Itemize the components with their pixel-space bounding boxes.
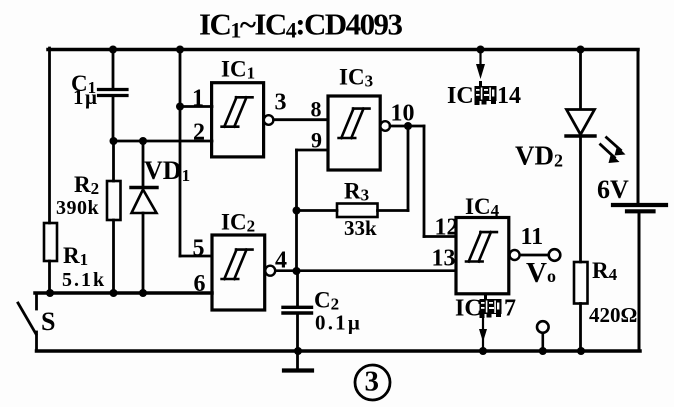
svg-text:1: 1 [192,86,204,112]
svg-text:3: 3 [275,90,287,116]
svg-text:420Ω: 420Ω [589,303,637,327]
svg-text:IC: IC [447,83,474,109]
svg-text:5.1k: 5.1k [62,269,106,291]
svg-text:14: 14 [497,83,521,109]
svg-text:2: 2 [193,120,205,146]
svg-text:6: 6 [194,271,206,297]
svg-text:7: 7 [504,296,516,322]
svg-text:6V: 6V [597,175,629,204]
svg-text:11: 11 [521,224,544,250]
svg-text:33k: 33k [344,216,377,240]
svg-text:IC1~IC4:CD4093: IC1~IC4:CD4093 [199,7,402,43]
svg-text:10: 10 [391,101,415,127]
svg-text:5: 5 [193,236,205,262]
svg-text:1μ: 1μ [73,85,98,109]
svg-text:390k: 390k [56,197,100,219]
svg-text:0.1μ: 0.1μ [315,311,362,335]
svg-text:4: 4 [275,248,287,274]
svg-text:IC: IC [455,296,482,322]
svg-text:S: S [41,307,55,336]
svg-text:9: 9 [311,128,322,153]
svg-text:12: 12 [435,215,459,241]
svg-text:3: 3 [365,366,380,398]
svg-text:8: 8 [311,97,322,122]
svg-text:13: 13 [432,246,456,272]
